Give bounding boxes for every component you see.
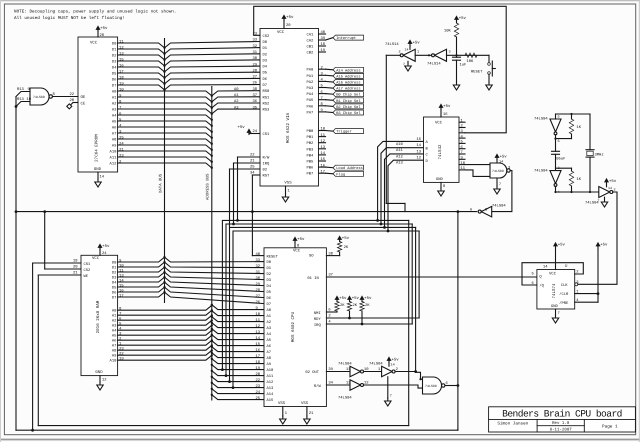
svg-text:+5v: +5v: [364, 296, 372, 301]
svg-text:26: 26: [256, 300, 261, 305]
74LS42 VCC pin 16 +5v: [440, 109, 442, 117]
svg-text:A9: A9: [112, 354, 117, 359]
svg-text:14: 14: [499, 160, 503, 165]
svg-text:B1 Chip Sel: B1 Chip Sel: [336, 99, 361, 104]
svg-text:01 IN: 01 IN: [307, 276, 318, 281]
svg-text:A8: A8: [112, 137, 117, 142]
svg-text:21: 21: [73, 271, 78, 276]
VIA CS1 pin 24 +5v: [249, 133, 260, 135]
svg-text:12: 12: [417, 156, 422, 161]
NAND gate 74LS00 (RAM select): [423, 377, 442, 394]
svg-text:74LS04: 74LS04: [369, 362, 383, 367]
wires RAM D0-D7 to CPU with data bus taps: [163, 256, 165, 258]
svg-text:74LS14: 74LS14: [385, 42, 399, 47]
resistor 2K pull-up on CPU SO pin 38: [338, 237, 341, 240]
svg-text:+5v: +5v: [459, 16, 467, 21]
svg-text:PA6: PA6: [307, 104, 315, 109]
svg-text:D3: D3: [263, 58, 268, 63]
svg-text:D1: D1: [112, 47, 117, 52]
+5v pin 14 NAND: [495, 155, 498, 158]
svg-text:3: 3: [449, 50, 451, 55]
svg-text:Rev 1.0: Rev 1.0: [552, 421, 570, 426]
wire inverted R/W to NAND input: [364, 385, 423, 388]
svg-text:14: 14: [543, 265, 548, 270]
svg-text:A12: A12: [267, 380, 275, 385]
svg-text:36: 36: [253, 99, 258, 104]
VIA VSS pin 1 ground: [285, 186, 287, 194]
svg-text:MOS 6522 VIA: MOS 6522 VIA: [286, 112, 291, 143]
svg-text:16: 16: [256, 348, 261, 353]
osc output node wire: [555, 186, 557, 192]
wires EPROM A0-A3 to VIA RS0-RS3 with address bus taps: [211, 95, 213, 97]
svg-text:CS2: CS2: [84, 268, 92, 273]
svg-text:D5: D5: [112, 71, 117, 76]
svg-text:32: 32: [256, 264, 261, 269]
svg-text:VCC: VCC: [435, 121, 443, 126]
inverter 74LS14 B pointing left: [435, 49, 447, 61]
wire left vertical from gate inputs down to bottom rail: [15, 97, 17, 431]
svg-text:02 OUT: 02 OUT: [305, 370, 319, 375]
svg-text:PB4: PB4: [307, 153, 315, 158]
svg-text:+5v: +5v: [238, 125, 246, 130]
svg-text:A5: A5: [112, 334, 117, 339]
ground pin 7 inverter B: [387, 377, 389, 398]
net label box Interrupt: [333, 35, 364, 40]
svg-text:25: 25: [256, 396, 261, 401]
svg-text:SO: SO: [309, 254, 314, 259]
NAND output wire to EPROM OE pin 22: [52, 96, 78, 98]
wires RAM A0-A10 into address bus: [118, 305, 212, 310]
svg-text:20: 20: [70, 98, 75, 103]
svg-text:PB3: PB3: [307, 147, 315, 152]
svg-text:A12: A12: [396, 154, 404, 159]
svg-text:74LS00: 74LS00: [492, 169, 504, 173]
svg-text:CS1: CS1: [84, 262, 92, 267]
svg-text:7: 7: [321, 96, 323, 101]
svg-text:30: 30: [253, 56, 258, 61]
svg-text:IRQ: IRQ: [314, 323, 322, 328]
svg-text:15: 15: [417, 137, 422, 142]
svg-text:A15 Address: A15 Address: [336, 74, 360, 79]
svg-text:GND: GND: [94, 167, 102, 172]
svg-text:VCC: VCC: [92, 256, 100, 261]
svg-text:A7: A7: [112, 344, 117, 349]
svg-text:PA7: PA7: [307, 110, 314, 115]
svg-text:74LS04: 74LS04: [534, 169, 548, 174]
svg-text:74LS74: 74LS74: [552, 283, 557, 299]
svg-text:CS1: CS1: [263, 132, 271, 137]
svg-text:D3: D3: [112, 59, 117, 64]
svg-text:D3: D3: [267, 278, 272, 283]
resistor 10K series reset: [465, 53, 477, 57]
svg-text:+5v: +5v: [413, 41, 421, 46]
svg-text:R/W: R/W: [314, 384, 322, 389]
svg-text:D0: D0: [267, 260, 272, 265]
svg-text:D5: D5: [112, 285, 117, 290]
wire 74LS42 input A13 riser: [388, 160, 424, 231]
svg-text:+5v: +5v: [100, 26, 108, 31]
svg-text:+5v: +5v: [342, 236, 350, 241]
wires EPROM D0-D7 to VIA with data bus taps: [163, 47, 165, 49]
svg-text:D2: D2: [267, 272, 272, 277]
net label box A17 Address: [333, 86, 364, 91]
svg-text:27: 27: [253, 75, 258, 80]
svg-text:A14: A14: [267, 392, 275, 397]
svg-text:IRQ: IRQ: [263, 162, 271, 167]
svg-text:26: 26: [253, 81, 258, 86]
CPU VSS pin 1 ground: [282, 407, 284, 417]
wire RC node: [447, 54, 490, 56]
band wire A10/CPU: [222, 220, 408, 369]
svg-text:7: 7: [461, 150, 463, 155]
wire RDY to band riser: [350, 317, 420, 319]
svg-text:32: 32: [253, 44, 258, 49]
wire CPU 02 OUT pin 39: [326, 371, 350, 373]
svg-text:RS0: RS0: [263, 89, 271, 94]
ground reset capacitor: [456, 82, 458, 85]
wire VIA IRQ pin 21 routing: [234, 162, 261, 164]
svg-text:24: 24: [102, 251, 107, 256]
wire 74LS42 input A10 riser: [378, 141, 424, 220]
svg-text:D7: D7: [112, 295, 117, 300]
svg-text:2: 2: [399, 50, 401, 55]
svg-text:+5v: +5v: [609, 179, 617, 184]
svg-text:74LS00: 74LS00: [33, 95, 45, 99]
svg-text:19: 19: [321, 48, 326, 53]
crystal 3MHz: [589, 114, 591, 150]
svg-text:+5v: +5v: [558, 243, 566, 248]
svg-text:A15: A15: [267, 398, 275, 403]
svg-text:A5: A5: [267, 338, 272, 343]
svg-text:17: 17: [321, 169, 326, 174]
svg-text:14: 14: [405, 48, 409, 52]
net label box Load Address: [333, 165, 364, 170]
svg-text:CS2: CS2: [263, 34, 271, 39]
svg-text:D6: D6: [112, 290, 117, 295]
svg-text:+5v: +5v: [600, 243, 608, 248]
svg-text:A9: A9: [112, 143, 117, 148]
RAM VCC pin 24 +5v: [99, 249, 101, 255]
svg-text:A9: A9: [267, 362, 272, 367]
svg-text:7: 7: [499, 182, 501, 187]
inverter 74LS04 osc B pointing down: [556, 167, 572, 169]
svg-text:VSS: VSS: [301, 401, 309, 406]
svg-text:A1: A1: [112, 95, 117, 100]
svg-text:12: 12: [102, 378, 107, 383]
svg-text:13: 13: [321, 145, 326, 150]
svg-text:A12: A12: [110, 161, 118, 166]
svg-text:33: 33: [256, 258, 261, 263]
svg-text:A3: A3: [112, 324, 117, 329]
wire 74LS42 output to NAND B: [465, 170, 490, 177]
svg-text:A4: A4: [112, 329, 117, 334]
svg-text:12: 12: [256, 324, 261, 329]
ground pin 7 74LS14 A: [407, 61, 409, 63]
title block: [489, 407, 636, 432]
svg-text:74LS14: 74LS14: [427, 62, 441, 67]
EPROM VCC pin 28 +5v: [97, 31, 99, 37]
svg-text:7: 7: [558, 311, 560, 316]
page edge shading: [0, 0, 640, 2]
svg-text:GND: GND: [551, 304, 559, 309]
svg-text:8-11-2007: 8-11-2007: [550, 428, 573, 433]
svg-text:A2: A2: [112, 101, 117, 106]
svg-text:B0 Chip Sel: B0 Chip Sel: [336, 93, 361, 98]
svg-text:21: 21: [250, 159, 255, 164]
svg-text:CLK: CLK: [561, 283, 569, 288]
wires EPROM A4-A12 into address bus: [118, 115, 212, 120]
svg-text:Interrupt: Interrupt: [336, 36, 356, 41]
NAND gate 74LS00 (decode combine) with power pins: [490, 163, 507, 178]
RAM GND pin 12 ground: [99, 376, 101, 382]
svg-text:A4: A4: [112, 113, 117, 118]
svg-text:14: 14: [417, 143, 422, 148]
svg-text:10: 10: [256, 312, 261, 317]
svg-text:A17 Address: A17 Address: [336, 87, 360, 92]
svg-text:NOTE: Decoupling caps, power s: NOTE: Decoupling caps, power supply and …: [14, 9, 176, 15]
svg-text:13: 13: [417, 149, 422, 154]
svg-text:Benders Brain CPU board: Benders Brain CPU board: [502, 409, 622, 420]
74LS42 GND pin 8 ground: [440, 182, 442, 188]
svg-text:23: 23: [256, 384, 261, 389]
svg-text:D0: D0: [112, 260, 117, 265]
+5v for 74LS74 preset/clear: [596, 243, 599, 246]
CPU IC MOS 6502: [264, 248, 326, 407]
wire clock feed jog to 74LS14: [386, 202, 405, 204]
svg-text:D2: D2: [112, 53, 117, 58]
net label box Trigger: [333, 129, 364, 134]
bottom rail wire lower: [16, 429, 458, 431]
svg-text:CA2: CA2: [307, 39, 315, 44]
svg-text:11: 11: [346, 367, 351, 372]
svg-text:28: 28: [253, 68, 258, 73]
svg-text:31: 31: [256, 270, 261, 275]
net label box B1 Chip Sel: [333, 98, 364, 103]
svg-text:A1: A1: [267, 314, 272, 319]
svg-text:A7: A7: [267, 350, 272, 355]
svg-text:D7: D7: [112, 83, 117, 88]
svg-text:MOS 6502 CPU: MOS 6502 CPU: [291, 311, 296, 342]
svg-text:Simon Jansen: Simon Jansen: [497, 420, 528, 426]
wires CPU A0-A15 into address bus: [212, 305, 264, 310]
svg-text:40: 40: [321, 30, 326, 35]
wire NAND output to vertical trunk: [445, 385, 458, 387]
svg-text:25: 25: [250, 165, 255, 170]
svg-text:Load Address: Load Address: [336, 166, 363, 171]
resistor 1K osc B: [571, 168, 573, 171]
svg-text:A11: A11: [396, 148, 404, 153]
net label box B2 Chip Sel: [333, 104, 364, 109]
svg-text:D4: D4: [263, 65, 268, 70]
svg-text:A4: A4: [267, 332, 272, 337]
svg-text:11: 11: [256, 318, 261, 323]
svg-text:39: 39: [328, 367, 333, 372]
CPU VSS pin 21 ground: [306, 407, 308, 417]
svg-text:VCC: VCC: [277, 30, 285, 35]
svg-text:B3 Chip Sel: B3 Chip Sel: [336, 111, 361, 116]
svg-text:A11: A11: [110, 155, 118, 160]
svg-text:D3: D3: [112, 275, 117, 280]
74LS74 VCC pin 14 +5v: [555, 248, 557, 270]
net label box B3 Chip Sel: [333, 110, 364, 115]
svg-text:GND: GND: [95, 370, 103, 375]
svg-text:RS1: RS1: [263, 95, 271, 100]
svg-text:PB7: PB7: [307, 172, 314, 177]
svg-text:A10: A10: [396, 142, 404, 147]
svg-text:18: 18: [256, 360, 261, 365]
wire reset distribution line (long horizontal): [16, 211, 477, 213]
inverter 74LS04 clock buffer with power pins: [599, 187, 610, 198]
svg-text:11: 11: [321, 133, 326, 138]
svg-text:A10: A10: [267, 368, 275, 373]
EPROM IC 27C64: [78, 37, 118, 172]
svg-text:/PRE: /PRE: [559, 301, 569, 306]
svg-text:RST: RST: [263, 174, 271, 179]
wire between 74LS14 A and B: [415, 54, 431, 56]
net label box Flag: [333, 171, 364, 176]
wire IRQ to band riser: [362, 323, 412, 325]
svg-text:PA4: PA4: [307, 92, 315, 97]
svg-text:A0: A0: [267, 308, 272, 313]
bottom rail wire upper: [38, 425, 408, 427]
inverter 74LS04 R/W: [350, 380, 361, 391]
svg-text:7: 7: [403, 62, 405, 66]
svg-text:15: 15: [256, 342, 261, 347]
svg-text:A3: A3: [267, 326, 272, 331]
svg-text:WE: WE: [84, 274, 89, 279]
svg-text:24: 24: [253, 129, 258, 134]
svg-text:D5: D5: [267, 290, 272, 295]
svg-text:A13: A13: [267, 386, 275, 391]
svg-text:D6: D6: [263, 77, 268, 82]
svg-text:38: 38: [253, 87, 258, 92]
wire VIA RESET pin 34 down to CPU RESET: [252, 174, 260, 176]
EPROM CE pin 20 no-connect diamond: [73, 102, 78, 104]
svg-text:18: 18: [73, 259, 78, 264]
push button RESET: [488, 55, 490, 62]
svg-text:VCC: VCC: [549, 271, 557, 276]
svg-text:PA3: PA3: [307, 86, 315, 91]
net label box A15 Address: [333, 73, 364, 78]
svg-text:A13: A13: [396, 161, 404, 166]
svg-text:74LS00: 74LS00: [425, 384, 437, 388]
svg-text:/CLR: /CLR: [559, 292, 569, 297]
svg-text:17: 17: [256, 354, 261, 359]
svg-text:D6: D6: [267, 296, 272, 301]
svg-text:CA1: CA1: [307, 33, 315, 38]
svg-text:PB0: PB0: [307, 129, 315, 134]
EPROM GND pin 14 ground: [97, 172, 99, 179]
svg-text:7: 7: [390, 394, 392, 399]
wire 74LS42 input A11 riser: [381, 148, 424, 224]
svg-text:A6: A6: [267, 344, 272, 349]
svg-text:D2: D2: [263, 52, 268, 57]
svg-text:A2: A2: [234, 99, 239, 104]
svg-text:7: 7: [598, 199, 600, 203]
NAND inputs R13 wires: [16, 92, 30, 97]
svg-text:A8: A8: [267, 356, 272, 361]
wire phi2 buffered to NAND input: [395, 371, 416, 373]
inverter 74LS14 A pointing left with power pins: [403, 49, 415, 61]
svg-text:A1: A1: [112, 314, 117, 319]
svg-text:A3: A3: [234, 105, 239, 110]
svg-text:Page 1: Page 1: [602, 424, 618, 429]
svg-text:DATA BUS: DATA BUS: [159, 173, 164, 193]
svg-text:39: 39: [321, 36, 326, 41]
wire VIA 02 pin 25 routing: [230, 168, 261, 170]
svg-text:VCC: VCC: [293, 249, 301, 254]
svg-text:10K: 10K: [467, 59, 475, 64]
wire 74LS42 input A12 riser: [385, 154, 424, 228]
svg-text:20: 20: [73, 265, 78, 270]
svg-text:RDY: RDY: [314, 317, 322, 322]
svg-text:CE: CE: [81, 102, 86, 107]
svg-text:PA2: PA2: [307, 80, 315, 85]
svg-text:D6: D6: [112, 77, 117, 82]
svg-text:22: 22: [70, 92, 75, 97]
svg-text:14: 14: [391, 363, 395, 368]
svg-text:28: 28: [100, 33, 105, 38]
+5v pin 14 74LS14 A: [408, 41, 411, 44]
svg-text:34: 34: [328, 381, 333, 386]
RAM IC 2016 2Kx8: [81, 255, 118, 375]
svg-text:GND: GND: [436, 177, 444, 182]
svg-text:28: 28: [256, 288, 261, 293]
svg-text:A1: A1: [234, 93, 239, 98]
svg-text:74LS04: 74LS04: [534, 117, 548, 122]
inverter 74LS04 phi2 B with power pins: [364, 371, 382, 373]
svg-text:38: 38: [328, 251, 333, 256]
svg-text:A14 Address: A14 Address: [336, 68, 360, 73]
svg-text:RESET: RESET: [267, 254, 279, 259]
flip-flop IC 74LS74: [537, 270, 575, 310]
svg-text:CB2: CB2: [307, 51, 315, 56]
wire 74LS42 output to NAND A: [465, 164, 490, 166]
CPU VCC pin 8 +5v: [294, 242, 296, 248]
svg-text:16: 16: [443, 112, 448, 117]
svg-text:+5v: +5v: [500, 155, 508, 160]
svg-text:A10: A10: [110, 359, 118, 364]
svg-text:31: 31: [253, 50, 258, 55]
svg-text:D1: D1: [112, 265, 117, 270]
svg-text:PA1: PA1: [307, 74, 315, 79]
ground pin 7 clock buffer: [604, 197, 606, 199]
svg-text:D0: D0: [263, 40, 268, 45]
svg-text:40: 40: [256, 252, 261, 257]
svg-text:14: 14: [321, 151, 326, 156]
svg-text:14: 14: [608, 186, 612, 190]
svg-text:13: 13: [256, 330, 261, 335]
svg-text:02: 02: [263, 168, 268, 173]
svg-text:PB2: PB2: [307, 141, 315, 146]
svg-text:ADDRESS BUS: ADDRESS BUS: [206, 173, 211, 200]
svg-text:A5: A5: [112, 119, 117, 124]
svg-text:74LS04: 74LS04: [338, 362, 352, 367]
svg-text:D4: D4: [267, 284, 272, 289]
svg-text:2K: 2K: [365, 303, 370, 308]
svg-text:+5v: +5v: [352, 296, 360, 301]
svg-text:14: 14: [256, 336, 261, 341]
svg-text:+5v: +5v: [297, 237, 305, 242]
band wire A11/CPU: [226, 224, 412, 376]
svg-text:+5v: +5v: [392, 358, 400, 363]
svg-text:+5v: +5v: [286, 15, 294, 20]
svg-text:D7: D7: [267, 302, 272, 307]
74LS74 GND pin 7 ground: [555, 309, 557, 315]
svg-text:27C64 EPROM: 27C64 EPROM: [95, 134, 100, 162]
svg-text:20: 20: [286, 23, 291, 28]
decoder IC 74LS42: [424, 117, 460, 182]
